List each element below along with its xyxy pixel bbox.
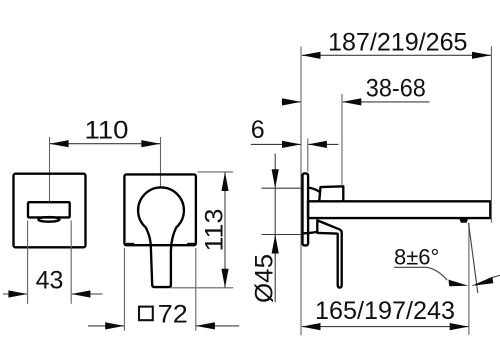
svg-text:72: 72	[158, 300, 188, 328]
wire arc tail right	[492, 275, 500, 277]
wire dimension 43 lines	[3, 293, 27, 295]
wire dimension 38-68 lines	[282, 101, 301, 103]
svg-text:187/219/265: 187/219/265	[328, 28, 468, 56]
wire extension line outlet	[468, 223, 470, 335]
wire center extension line middle view	[160, 137, 162, 186]
wire leader 8deg slant	[427, 267, 447, 280]
wire extension line 38-68 right	[341, 94, 343, 186]
node spout front body	[28, 202, 70, 217]
node square symbol	[139, 307, 153, 321]
svg-text:6: 6	[251, 116, 265, 144]
wire extension lines 43	[27, 221, 29, 304]
wire dimension 6 lines	[251, 143, 301, 145]
wire dimension 187/219/265 line	[302, 54, 491, 56]
wire dimension 113 line	[224, 172, 226, 288]
wire extension lines 72	[123, 248, 125, 331]
arrow 38-68 right	[342, 98, 361, 105]
svg-text:Ø45: Ø45	[251, 254, 279, 303]
arrow 72 right	[196, 322, 215, 329]
wire extension line spout tip	[490, 47, 492, 223]
svg-text:43: 43	[36, 267, 64, 295]
arrow 165 left	[302, 323, 321, 330]
wire wall line	[300, 47, 302, 336]
wire dimension 165/197/243 line	[302, 326, 469, 328]
svg-text:8±6°: 8±6°	[394, 245, 439, 270]
arrow angle right (points to vertex along arc)	[471, 277, 493, 286]
node lever side	[317, 220, 341, 287]
arrow 6 left	[282, 141, 301, 148]
node handle knob and lever	[138, 187, 184, 287]
arrow 43 left	[8, 290, 27, 297]
node boss top arc	[309, 188, 320, 192]
node aerator ellipse	[38, 217, 59, 222]
arrow 38-68 left	[282, 98, 301, 105]
svg-text:165/197/243: 165/197/243	[315, 297, 455, 325]
wire leader 8deg underline	[394, 266, 427, 268]
wire center extension line left view	[49, 137, 51, 201]
arrow 110 right	[141, 140, 160, 147]
arrow 113 bottom	[221, 269, 228, 288]
svg-text:113: 113	[201, 209, 229, 252]
svg-text:38-68: 38-68	[366, 75, 426, 103]
svg-text:110: 110	[85, 117, 129, 145]
wire extension lines 113	[198, 171, 234, 173]
arrow 72 left	[105, 322, 124, 329]
arrow 187 right	[472, 52, 491, 59]
arrow D45 top	[272, 169, 279, 188]
node tick bottom-left of plate	[126, 243, 134, 246]
wire tick D45 bottom	[262, 234, 302, 236]
arrow 187 left	[302, 52, 321, 59]
arrow 113 top	[221, 172, 228, 191]
arrow 165 right	[450, 323, 469, 330]
node cartridge body side	[319, 186, 343, 201]
node plate front (handle escutcheon)	[124, 174, 195, 245]
node wall plate side	[303, 173, 309, 245]
node boss bottom line	[302, 232, 316, 233]
arrow D45 bottom	[272, 235, 279, 254]
arrow angle left (points to vertex along arc)	[449, 280, 469, 287]
node aerator under spout	[459, 219, 468, 223]
arrow 6 right	[308, 141, 327, 148]
arrow 110 left	[50, 140, 69, 147]
wire dimension 110 line	[50, 143, 160, 145]
wire dimension 72 lines	[88, 325, 124, 327]
node plate front (spout escutcheon)	[14, 174, 86, 248]
wire water stream line	[469, 223, 478, 293]
wire dimension line D45	[274, 154, 276, 303]
node spout side bar	[308, 201, 490, 218]
arrow 43 right	[71, 290, 90, 297]
wire extension line 6 right	[307, 139, 309, 172]
wire tick D45 top	[262, 187, 302, 189]
node tick bottom-right of plate	[187, 243, 195, 246]
